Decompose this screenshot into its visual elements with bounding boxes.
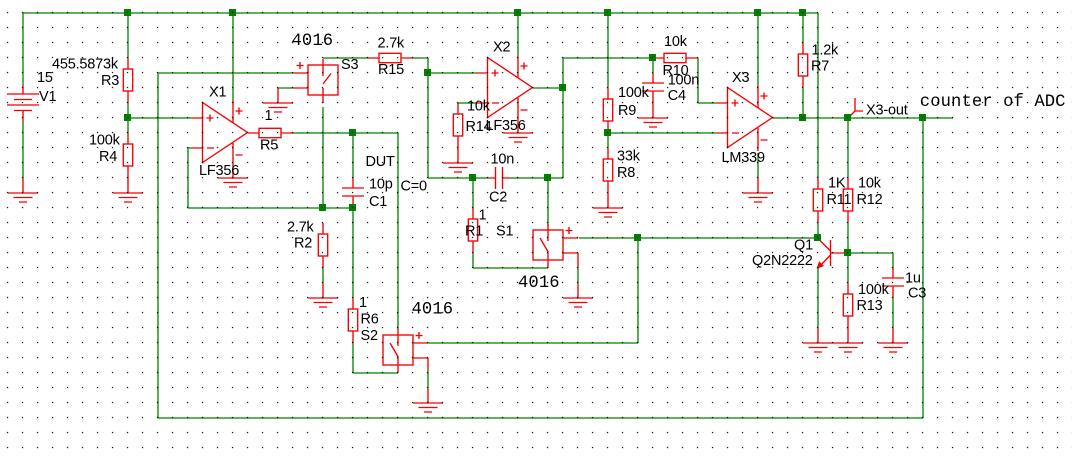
svg-text:R9: R9 bbox=[618, 103, 636, 119]
svg-text:10p: 10p bbox=[369, 177, 393, 193]
svg-text:R12: R12 bbox=[857, 192, 883, 208]
svg-text:1K: 1K bbox=[828, 176, 846, 192]
svg-text:LM339: LM339 bbox=[722, 150, 765, 166]
svg-text:1.2k: 1.2k bbox=[812, 43, 840, 59]
svg-text:R7: R7 bbox=[811, 59, 829, 75]
svg-text:R2: R2 bbox=[294, 236, 312, 252]
svg-text:100k: 100k bbox=[618, 85, 650, 101]
svg-text:LF356: LF356 bbox=[486, 118, 526, 134]
svg-text:X1: X1 bbox=[209, 85, 226, 101]
svg-text:4016: 4016 bbox=[518, 274, 560, 293]
svg-text:R15: R15 bbox=[378, 62, 404, 78]
svg-text:C4: C4 bbox=[668, 88, 686, 104]
svg-text:R5: R5 bbox=[260, 138, 278, 154]
svg-text:DUT: DUT bbox=[366, 154, 396, 170]
svg-text:R1: R1 bbox=[465, 224, 483, 240]
svg-text:1: 1 bbox=[265, 108, 273, 124]
svg-text:2.7k: 2.7k bbox=[378, 36, 406, 52]
svg-text:R6: R6 bbox=[361, 312, 379, 328]
svg-text:LF356: LF356 bbox=[199, 163, 239, 179]
svg-text:100n: 100n bbox=[668, 73, 700, 89]
svg-text:10k: 10k bbox=[858, 176, 882, 192]
svg-text:455.5873k: 455.5873k bbox=[52, 56, 119, 72]
svg-text:S2: S2 bbox=[361, 328, 378, 344]
svg-text:X3-out: X3-out bbox=[866, 103, 908, 119]
svg-text:4016: 4016 bbox=[412, 301, 454, 320]
svg-text:Q2N2222: Q2N2222 bbox=[752, 253, 813, 269]
svg-text:S3: S3 bbox=[341, 57, 358, 73]
svg-text:X3: X3 bbox=[732, 70, 749, 86]
svg-text:C=0: C=0 bbox=[401, 179, 428, 195]
svg-text:15: 15 bbox=[37, 70, 53, 86]
svg-text:counter of ADC: counter of ADC bbox=[920, 93, 1066, 112]
svg-text:1u: 1u bbox=[905, 271, 921, 287]
svg-text:V1: V1 bbox=[39, 89, 56, 105]
svg-text:Q1: Q1 bbox=[794, 237, 813, 253]
svg-text:1: 1 bbox=[479, 208, 487, 224]
svg-text:100k: 100k bbox=[89, 133, 121, 149]
svg-text:R13: R13 bbox=[857, 298, 883, 314]
svg-text:10n: 10n bbox=[491, 152, 515, 168]
svg-text:X2: X2 bbox=[493, 40, 510, 56]
svg-text:33k: 33k bbox=[617, 149, 641, 165]
svg-text:1: 1 bbox=[359, 295, 367, 311]
svg-text:R8: R8 bbox=[617, 165, 635, 181]
svg-text:C1: C1 bbox=[369, 194, 387, 210]
svg-text:R11: R11 bbox=[827, 192, 852, 208]
svg-text:R3: R3 bbox=[101, 73, 119, 89]
svg-text:2.7k: 2.7k bbox=[287, 220, 315, 236]
svg-text:10k: 10k bbox=[664, 34, 688, 50]
svg-text:100k: 100k bbox=[858, 282, 890, 298]
svg-text:4016: 4016 bbox=[292, 32, 334, 51]
svg-text:C2: C2 bbox=[489, 190, 507, 206]
svg-text:S1: S1 bbox=[496, 224, 513, 240]
svg-text:10k: 10k bbox=[467, 99, 491, 115]
svg-text:C3: C3 bbox=[908, 286, 926, 302]
svg-text:R4: R4 bbox=[99, 149, 117, 165]
